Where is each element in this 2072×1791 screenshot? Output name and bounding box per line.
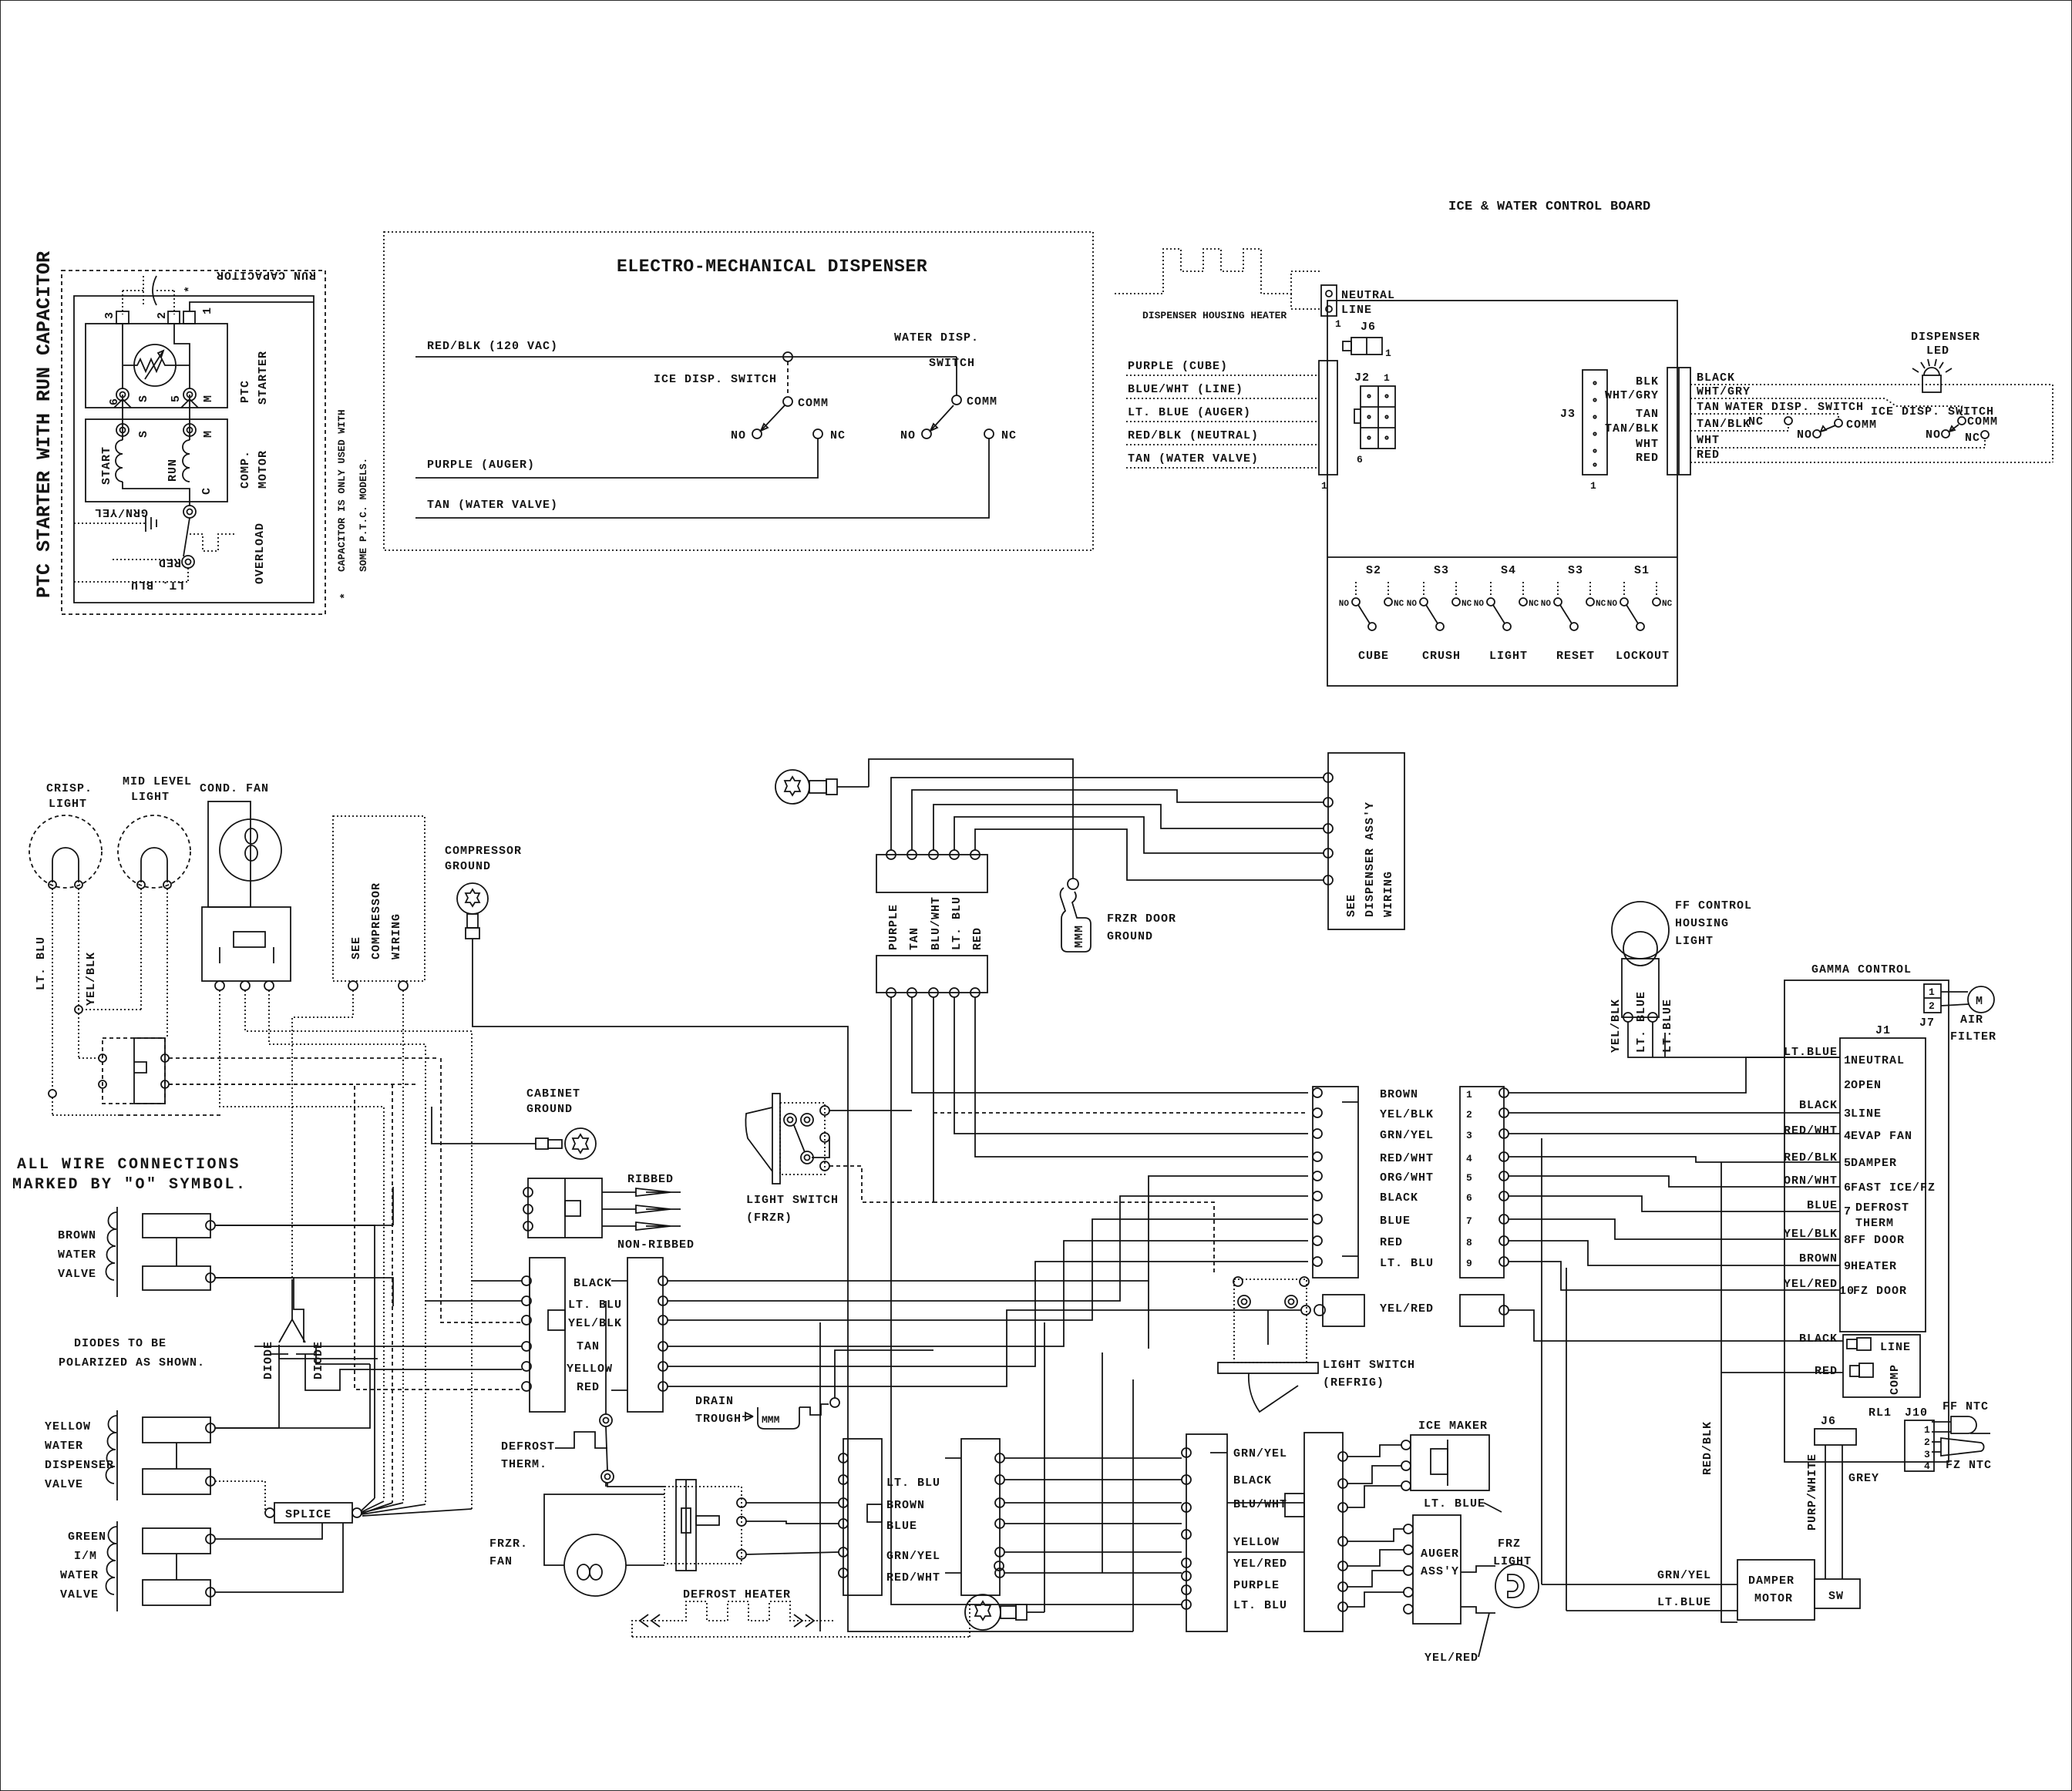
svg-text:MMM: MMM [1073,925,1086,948]
switch S3 CRUSH [1407,564,1472,663]
svg-text:RED: RED [971,927,984,950]
svg-text:CAPACITOR IS ONLY USED WITH: CAPACITOR IS ONLY USED WITH [336,409,348,572]
svg-text:FF NTC: FF NTC [1942,1400,1989,1413]
svg-text:OVERLOAD: OVERLOAD [254,523,267,584]
PTC block outer dashed box [62,270,325,614]
svg-text:S3: S3 [1434,564,1449,577]
svg-text:LIGHT: LIGHT [1675,935,1714,948]
damper wires labels [1542,1569,1737,1611]
svg-text:6: 6 [1357,454,1363,465]
PTC block inner box [74,296,314,603]
svg-text:DIODES TO BE: DIODES TO BE [74,1337,166,1350]
svg-text:PURP/WHITE: PURP/WHITE [1806,1453,1819,1531]
svg-text:ASS'Y: ASS'Y [1421,1565,1459,1578]
wire diode1 bottom to splice [215,1354,279,1428]
crisp light [29,782,102,889]
brown water valve [58,1207,215,1297]
svg-text:NC: NC [1596,600,1606,609]
svg-text:(FRZR): (FRZR) [746,1211,792,1225]
PURP/WHITE + GREY wires [1806,1445,1879,1579]
svg-text:COMM: COMM [967,395,997,408]
svg-text:TAN (WATER VALVE): TAN (WATER VALVE) [1128,452,1259,465]
svg-text:3: 3 [103,311,116,319]
svg-text:NEUTRAL: NEUTRAL [1851,1054,1905,1067]
wires to see dispenser assy box [891,778,1324,880]
PTC starter box [86,324,227,408]
relay dashed wire to YEL/BLK pin [441,1058,522,1322]
svg-text:MARKED BY "O" SYMBOL.: MARKED BY "O" SYMBOL. [12,1176,247,1194]
start winding [100,395,123,485]
svg-text:NO: NO [1541,600,1552,609]
svg-text:BROWN: BROWN [886,1499,925,1512]
svg-text:1: 1 [1466,1089,1472,1100]
svg-text:BLK: BLK [1636,375,1659,388]
svg-text:WATER DISP.: WATER DISP. [894,331,979,344]
connector J6 (damper) [1815,1415,1856,1445]
vertical riser wires near bottom center [1044,1322,1133,1631]
svg-text:NO: NO [1926,428,1941,442]
svg-text:CRISP.: CRISP. [46,782,92,795]
svg-text:9: 9 [1466,1258,1472,1269]
svg-text:RL1: RL1 [1868,1406,1892,1420]
svg-text:GREY: GREY [1848,1472,1879,1485]
dispenser housing heater element [1115,249,1321,321]
run capacitor symbol [123,276,197,314]
svg-text:PTC: PTC [239,380,252,403]
ice maker [1401,1420,1489,1490]
input wire RED/BLK (NEUTRAL) [1126,429,1319,445]
svg-text:TAN/BLK: TAN/BLK [1697,418,1751,431]
svg-text:DEFROST HEATER: DEFROST HEATER [683,1588,791,1601]
frzr fan wires [544,1483,664,1565]
svg-text:BLUE: BLUE [1807,1199,1838,1212]
note: all wire connections [12,1156,247,1194]
FRZ light [1461,1537,1539,1613]
svg-text:I/M: I/M [74,1550,97,1563]
svg-text:J10: J10 [1905,1406,1928,1420]
splice right fan wires [362,1498,472,1516]
drain trough riser [835,1350,933,1398]
svg-text:GRN/YEL: GRN/YEL [1233,1447,1287,1460]
FZ NTC [1941,1433,1992,1472]
YEL/RED pointer [1424,1613,1489,1665]
svg-text:DEFROST: DEFROST [1855,1201,1909,1215]
svg-text:BLUE/WHT (LINE): BLUE/WHT (LINE) [1128,383,1243,396]
svg-text:NC: NC [1965,432,1980,445]
connector J3 [1560,370,1607,492]
connector J7 [1919,984,1941,1030]
svg-text:VALVE: VALVE [60,1588,99,1601]
wire cond fan t2 bundle [245,990,472,1509]
diodes note [59,1337,205,1369]
svg-text:DRAIN: DRAIN [695,1395,734,1408]
svg-text:CABINET: CABINET [526,1087,580,1100]
svg-text:7: 7 [1466,1215,1472,1227]
svg-text:RED: RED [158,556,181,569]
svg-text:LIGHT: LIGHT [131,791,170,804]
svg-text:PURPLE (CUBE): PURPLE (CUBE) [1128,360,1228,373]
svg-text:2: 2 [156,311,169,319]
FF control housing light [1612,899,1752,1022]
svg-text:WHT: WHT [1697,434,1720,447]
svg-text:NC: NC [1461,600,1472,609]
air filter [1941,986,1996,1043]
svg-text:BROWN: BROWN [1380,1088,1418,1101]
svg-text:HEATER: HEATER [1851,1260,1897,1273]
middle connector [1285,1433,1347,1631]
lamp wires to J1 [1628,1022,1840,1057]
tall connector labels [1380,1088,1434,1270]
svg-text:SW: SW [1828,1590,1844,1603]
wire TAN/BLK to water NC [1690,418,1788,431]
svg-text:4: 4 [1466,1153,1472,1164]
board output connector [1667,368,1690,475]
svg-text:YEL/RED: YEL/RED [1784,1278,1838,1291]
svg-text:YEL/BLK: YEL/BLK [85,952,98,1006]
svg-text:GRN/YEL: GRN/YEL [1380,1129,1434,1142]
output pin labels [1605,375,1659,465]
svg-text:COMM: COMM [1967,415,1998,428]
svg-text:ALL WIRE CONNECTIONS: ALL WIRE CONNECTIONS [17,1156,240,1174]
svg-text:POLARIZED AS SHOWN.: POLARIZED AS SHOWN. [59,1356,205,1369]
wire brown valve top to splice [215,1225,375,1498]
switch S2 CUBE [1339,564,1404,663]
svg-text:LOCKOUT: LOCKOUT [1616,650,1670,663]
winding common wire / C terminal [123,482,214,506]
svg-text:1: 1 [1924,1424,1930,1436]
svg-text:WATER: WATER [60,1569,99,1582]
PTC starter label (rotated) [239,351,270,405]
svg-text:ELECTRO-MECHANICAL DISPENSER: ELECTRO-MECHANICAL DISPENSER [617,257,927,277]
svg-text:ICE & WATER CONTROL BOARD: ICE & WATER CONTROL BOARD [1448,200,1651,214]
TAN (WATER VALVE) wire [415,439,989,518]
line/comp terminal block [1799,1332,1920,1397]
input connector block [1319,361,1337,492]
defrost therm [501,1414,614,1483]
svg-text:GAMMA CONTROL: GAMMA CONTROL [1811,963,1912,976]
svg-text:TROUGH: TROUGH [695,1413,742,1426]
svg-text:BLACK: BLACK [1799,1332,1838,1346]
svg-text:M: M [202,430,215,438]
svg-text:COMPRESSOR: COMPRESSOR [370,882,383,959]
frzr door ground clamp [1061,879,1177,952]
relay dashed wire to YELLOW pin [392,1084,393,1503]
svg-text:S4: S4 [1501,564,1516,577]
svg-text:RED/WHT: RED/WHT [1380,1152,1434,1165]
svg-text:START: START [100,446,113,485]
svg-text:SOME P.T.C. MODELS.: SOME P.T.C. MODELS. [358,458,369,572]
J2 pin dots [1367,395,1387,439]
green i/m water valve [60,1521,215,1611]
svg-text:1: 1 [1321,480,1327,492]
wire cond fan t1 to splice bundle [220,990,384,1498]
wire cabinet ground to bundle [432,1107,518,1144]
dashed wire to refrig switch [933,1202,1214,1275]
svg-text:DISPENSER HOUSING HEATER: DISPENSER HOUSING HEATER [1142,310,1287,321]
svg-text:5: 5 [1466,1172,1472,1184]
svg-text:GRN/YEL: GRN/YEL [94,506,148,519]
svg-text:FAST ICE/FZ: FAST ICE/FZ [1851,1181,1936,1195]
svg-text:FZ DOOR: FZ DOOR [1853,1285,1907,1298]
input wire PURPLE (CUBE) [1126,360,1319,375]
ice disp switch (right) [1871,405,1998,445]
wires middle connector to ice maker [1347,1445,1401,1507]
svg-text:WATER: WATER [58,1248,96,1262]
svg-text:NC: NC [1394,600,1404,609]
svg-text:LT.BLUE: LT.BLUE [1657,1596,1711,1609]
drain trough [695,1395,839,1429]
see dispenser assy wiring box [1324,753,1404,929]
svg-text:ORG/WHT: ORG/WHT [1380,1171,1434,1184]
svg-text:COMM: COMM [798,397,829,410]
svg-text:LT. BLU: LT. BLU [35,936,48,990]
svg-text:LT. BLU: LT. BLU [568,1299,622,1312]
svg-text:BLACK: BLACK [1380,1191,1418,1205]
svg-text:LT. BLU: LT. BLU [1380,1257,1434,1270]
svg-text:RED: RED [1380,1236,1403,1249]
svg-text:M: M [1976,995,1983,1008]
svg-text:LT. BLU: LT. BLU [886,1477,940,1490]
svg-text:SWITCH: SWITCH [929,357,975,370]
wire cond fan t3 bundle [269,990,425,1504]
defrost connector right [945,1439,1004,1595]
wires 6pin-left to bundle [254,1281,522,1346]
svg-text:NO: NO [900,429,916,442]
switch S4 LIGHT [1474,564,1539,663]
input wire TAN (WATER VALVE) [1126,452,1319,468]
svg-text:DISPENSER: DISPENSER [1911,331,1980,344]
svg-text:YEL/RED: YEL/RED [1380,1302,1434,1316]
wire BLACK [1690,371,2053,385]
svg-text:PTC STARTER WITH RUN CAPACITOR: PTC STARTER WITH RUN CAPACITOR [33,251,55,598]
LT. BLU wire [74,578,188,591]
comp motor M terminal [183,424,215,438]
RL1 / J10 [1868,1406,1934,1472]
svg-text:EVAP FAN: EVAP FAN [1851,1130,1912,1143]
svg-text:1: 1 [1385,348,1391,359]
svg-text:FRZR DOOR: FRZR DOOR [1107,912,1176,926]
relay output wires [119,1058,439,1115]
svg-text:LT. BLU: LT. BLU [130,578,184,591]
cabinet ground [518,1087,596,1159]
see compressor wiring box [333,816,425,990]
comp motor S terminal [116,424,150,438]
svg-text:YEL/BLK: YEL/BLK [568,1317,622,1330]
svg-text:NO: NO [1607,600,1618,609]
yellow valve top wire [215,1364,370,1428]
svg-text:YEL/BLK: YEL/BLK [1609,999,1623,1053]
svg-text:BLACK: BLACK [1233,1474,1272,1487]
svg-text:NO: NO [731,429,746,442]
wire compressor box t2 bundle [402,990,404,1501]
light switch frzr vertical wire [848,1071,1133,1631]
numbered connector (9 pin) [1460,1087,1509,1278]
svg-text:THERM.: THERM. [501,1458,547,1471]
capacitor terminal tab 1 [183,307,214,324]
svg-text:COMP.: COMP. [239,450,252,489]
svg-text:MOTOR: MOTOR [1754,1592,1793,1605]
svg-text:RED/BLK: RED/BLK [1701,1421,1714,1475]
svg-text:NON-RIBBED: NON-RIBBED [617,1238,695,1252]
svg-text:BROWN: BROWN [1799,1252,1838,1265]
svg-text:NC: NC [830,429,846,442]
input wire BLUE/WHT (LINE) [1126,383,1319,398]
svg-text:DAMPER: DAMPER [1851,1157,1897,1170]
J1 wire labels [1784,1046,1838,1291]
svg-text:J2: J2 [1354,371,1370,385]
svg-text:RUN CAPACITOR: RUN CAPACITOR [216,268,316,281]
mesh numbered connector to gamma control J1 [1509,1057,1840,1290]
ice disp switch [654,361,846,442]
svg-text:MID LEVEL: MID LEVEL [123,775,192,788]
svg-text:BLU/WHT: BLU/WHT [1233,1498,1287,1511]
svg-text:FF DOOR: FF DOOR [1851,1234,1905,1247]
svg-text:WATER DISP. SWITCH: WATER DISP. SWITCH [1725,401,1864,414]
diode 2 [296,1341,325,1379]
svg-text:WATER: WATER [45,1440,83,1453]
defrost heater return wire [969,1600,970,1637]
control board box [1327,301,1677,686]
left connector labels [1233,1447,1287,1612]
svg-text:LIGHT SWITCH: LIGHT SWITCH [1323,1359,1415,1372]
run winding [166,395,190,482]
wire ground to frzr door ground [869,759,1073,879]
svg-text:CRUSH: CRUSH [1422,650,1461,663]
svg-text:RUN: RUN [166,459,180,482]
upper connector block [876,850,987,892]
wire RED [1690,449,2053,462]
svg-text:GROUND: GROUND [1107,930,1153,943]
PURPLE (AUGER) wire [415,439,818,478]
lower connector block [876,956,987,997]
wire labels [567,1277,622,1394]
yellow water dispenser valve [45,1410,215,1500]
svg-text:TAN/BLK: TAN/BLK [1605,422,1659,435]
svg-text:LIGHT: LIGHT [49,798,87,811]
left connector (8 pin) [1182,1434,1227,1631]
extra vertical riser [819,1322,821,1631]
RED/BLK vertical wire [1721,1162,1737,1622]
damper motor riser wires [1542,1138,1566,1611]
frzr fan [489,1534,626,1596]
wire riser mid mesh [1148,1281,1149,1349]
svg-text:C: C [200,487,214,495]
svg-text:COMM: COMM [1846,418,1877,432]
run capacitor label (rotated 180) [216,268,316,281]
svg-text:ICE DISP. SWITCH: ICE DISP. SWITCH [654,373,777,386]
svg-text:4: 4 [1924,1460,1930,1472]
board divider line [1327,556,1677,558]
right wire connector (6 pin) [611,1258,668,1412]
bottom ground wire [1027,1611,1044,1613]
svg-text:LT. BLUE (AUGER): LT. BLUE (AUGER) [1128,406,1251,419]
svg-text:M: M [202,395,215,402]
input wire LT. BLUE (AUGER) [1126,406,1319,422]
svg-text:YEL/BLK: YEL/BLK [1380,1108,1434,1121]
svg-text:1: 1 [1384,372,1390,384]
svg-text:BLACK: BLACK [573,1277,612,1290]
switch S3 RESET [1541,564,1606,663]
svg-text:NO: NO [1797,428,1812,442]
svg-text:SPLICE: SPLICE [285,1508,331,1521]
RED/BLK 120VAC wire [415,340,957,361]
svg-text:CUBE: CUBE [1358,650,1389,663]
capacitor terminal tab 2 [156,311,180,324]
svg-text:LT. BLU: LT. BLU [1233,1599,1287,1612]
svg-text:RED: RED [577,1381,600,1394]
bottom ground lug [965,1561,1027,1630]
splice [215,1481,362,1523]
svg-text:WHT/GRY: WHT/GRY [1697,385,1751,398]
svg-text:WIRING: WIRING [390,913,403,959]
wire TAN to water disp switch [1690,401,1864,419]
lamp wire labels [1609,991,1674,1053]
svg-text:S2: S2 [1366,564,1381,577]
green valve wires to splice area [215,1523,343,1592]
evap fan motor assembly [664,1480,746,1571]
svg-text:FILTER: FILTER [1950,1030,1996,1043]
comp motor box [86,419,227,502]
YEL/RED stub box [1301,1295,1434,1326]
PTC resistor circle [123,344,190,386]
svg-text:TAN: TAN [1636,408,1659,421]
svg-text:PURPLE: PURPLE [1233,1579,1280,1592]
svg-text:RED/BLK (120 VAC): RED/BLK (120 VAC) [427,340,558,353]
dispenser ground lug [775,770,869,804]
PTC block title [33,251,55,598]
light switch frzr stub wires [812,1111,933,1202]
svg-text:BLUE: BLUE [1380,1215,1411,1228]
svg-text:COMP: COMP [1889,1364,1902,1395]
mid level light [118,775,192,889]
svg-text:BLACK: BLACK [1799,1099,1838,1112]
svg-text:PURPLE (AUGER): PURPLE (AUGER) [427,459,535,472]
GRN/YEL ground [74,506,156,532]
svg-text:TAN (WATER VALVE): TAN (WATER VALVE) [427,499,558,512]
svg-text:2: 2 [1466,1109,1472,1121]
svg-text:LED: LED [1926,344,1949,358]
svg-text:8: 8 [1466,1237,1472,1248]
svg-text:1: 1 [1590,480,1596,492]
J10 to FF NTC wire [1932,1421,1951,1423]
svg-text:DEFROST: DEFROST [501,1440,555,1453]
svg-text:NC: NC [1529,600,1539,609]
svg-text:(REFRIG): (REFRIG) [1323,1376,1384,1389]
svg-text:FRZR.: FRZR. [489,1537,528,1551]
svg-text:LIGHT: LIGHT [1489,650,1528,663]
svg-text:MMM: MMM [762,1414,780,1426]
FF NTC [1942,1400,1989,1433]
svg-text:PURPLE: PURPLE [887,904,900,950]
defrost heater [632,1588,970,1637]
J1 pin rows [1839,1054,1936,1298]
svg-text:ICE MAKER: ICE MAKER [1418,1420,1488,1433]
svg-text:*: * [183,285,197,293]
defrost connector left [839,1439,882,1595]
svg-text:GROUND: GROUND [445,860,491,873]
numbered connector stub box [1460,1295,1509,1326]
svg-text:ORN/WHT: ORN/WHT [1784,1174,1838,1188]
switch S1 LOCKOUT [1607,564,1673,663]
light switch REFRIG [1218,1277,1415,1412]
ribbed/non-ribbed connector [523,1173,695,1252]
PTC terminal 5/M [170,388,215,408]
wire compressor ground down and right [473,952,848,1071]
svg-text:NC: NC [1001,429,1017,442]
svg-text:FZ NTC: FZ NTC [1946,1459,1992,1472]
wire WHT to ice NC [1690,434,1985,448]
cond fan [200,782,291,990]
